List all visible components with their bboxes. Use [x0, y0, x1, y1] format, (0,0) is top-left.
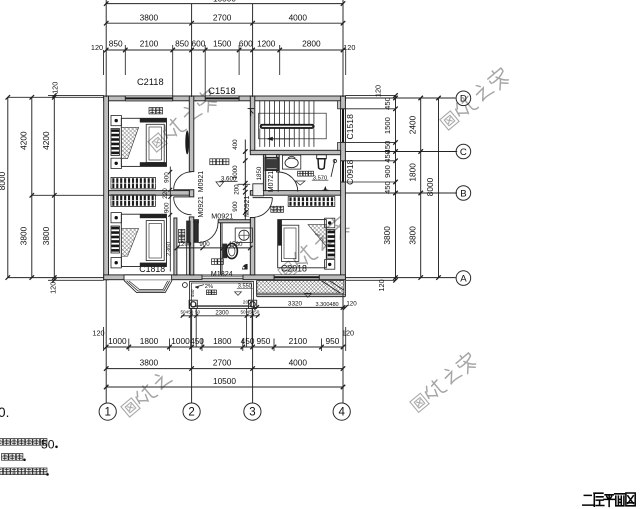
wall interior axis 2 stub between doors [189, 190, 194, 197]
wall exterior left (axis 1) [104, 96, 109, 280]
bed3 blanket hatch [308, 225, 326, 247]
room label bedroom1 (wo-shi) [149, 108, 155, 114]
bath1 cabinet dark [265, 157, 278, 170]
svg-text:1800: 1800 [213, 336, 232, 346]
porch slope 2% arrow [195, 285, 204, 288]
wall exterior bottom (axis A) [104, 275, 346, 280]
wall interior axis 2 lower [189, 217, 194, 275]
svg-text:M1824: M1824 [211, 269, 233, 278]
svg-text:3.300: 3.300 [316, 302, 330, 308]
bay window trapezoid [124, 280, 172, 293]
svg-text:2800: 2800 [302, 39, 321, 49]
dim chain left 4200/3800 inner [31, 97, 33, 277]
svg-text:1800: 1800 [407, 163, 417, 182]
bed3 top thick bar [278, 220, 282, 246]
porch column bottom-left [189, 300, 197, 308]
porch tiny canopy label [207, 290, 212, 295]
svg-text:900: 900 [232, 201, 239, 212]
bed2 head thick bar [140, 214, 167, 218]
dim chain right 8000 [438, 98, 440, 278]
svg-text:50: 50 [195, 309, 201, 314]
svg-text:450: 450 [190, 289, 195, 297]
svg-text:8000: 8000 [0, 171, 7, 190]
bed3 outline [278, 220, 327, 268]
stair down label (xia) [248, 109, 255, 117]
svg-text:450: 450 [241, 336, 255, 346]
svg-text:50.: 50. [0, 405, 9, 420]
axis bubble D [456, 91, 471, 106]
dim line bottom sub chain [106, 346, 343, 348]
bed1 headboard striped band [111, 129, 119, 156]
stair handrail [260, 124, 314, 128]
note line 2 [2, 454, 9, 461]
svg-text:A: A [460, 274, 467, 285]
room label leisure area (xiu-xian-qu) [210, 159, 216, 165]
svg-text:450: 450 [383, 97, 392, 110]
svg-text:C1518: C1518 [208, 86, 235, 96]
svg-text:120: 120 [51, 82, 60, 94]
stair treads lower flight [259, 129, 261, 147]
svg-text:50: 50 [254, 309, 260, 314]
svg-text:450: 450 [190, 336, 204, 346]
bed2 nightstand lower [111, 258, 121, 268]
bed2 blanket hatch [121, 229, 138, 257]
bottom extension lines from building [105, 280, 107, 403]
stair treads upper flight [259, 101, 261, 125]
door M0721 arc [278, 172, 298, 192]
bath2 washbasin circle [239, 230, 249, 240]
wall interior axis 3 lower (hall / bedroom3) [250, 218, 255, 275]
svg-text:2360: 2360 [165, 241, 172, 256]
wall bath2/study divider [220, 223, 222, 275]
porch bottom dim chain [181, 315, 259, 317]
bath2 floor drain [242, 264, 248, 270]
svg-text:2400: 2400 [407, 115, 417, 134]
door M0921 bedroom3 arc [253, 198, 273, 218]
wall interior axis B right (under bath) [250, 191, 340, 196]
svg-text:10500: 10500 [213, 0, 236, 3]
stair landing piers [338, 101, 341, 109]
window C1518 right wall (stair) [341, 109, 346, 143]
svg-text:1850: 1850 [256, 166, 263, 180]
wall exterior top (axis D) [104, 96, 346, 101]
svg-text:850: 850 [109, 39, 123, 49]
dim line bottom 3800/2700/4000 [106, 368, 343, 370]
svg-text:1500: 1500 [383, 117, 392, 134]
dim line top 3800/2700/4000 [106, 22, 343, 24]
axis bubble B [456, 186, 471, 201]
bed1 foot thick bar [140, 162, 167, 166]
svg-text:450: 450 [383, 181, 392, 194]
porch extension lines down [190, 308, 192, 347]
bed1 mattress inner [146, 124, 164, 162]
window C2018 bottom wall (bedroom3) [274, 275, 319, 280]
dim line study/bath2 [177, 247, 250, 249]
svg-text:1000: 1000 [171, 336, 190, 346]
porch column bottom-right [249, 300, 257, 308]
stair direction arrow [267, 138, 293, 140]
window C2118 top wall [125, 96, 172, 101]
bath2 washbasin counter [235, 228, 252, 242]
balcony diagonal brace [322, 281, 340, 293]
svg-text:120: 120 [342, 329, 354, 338]
bottom sub extension stubs [128, 339, 130, 352]
svg-text:3800: 3800 [18, 226, 28, 245]
door M0921 bedroom2 arc [174, 197, 192, 215]
svg-text:2: 2 [188, 407, 194, 419]
door M0921 bedroom1 arc [174, 172, 192, 190]
svg-text:4000: 4000 [289, 358, 308, 368]
wardrobe bedroom2 [111, 195, 155, 207]
svg-text:220: 220 [162, 188, 169, 199]
svg-text:600: 600 [191, 39, 205, 49]
room label bedroom3 [271, 206, 277, 212]
svg-text:120: 120 [346, 301, 357, 308]
svg-text:900: 900 [199, 241, 210, 248]
wall interior axis 2 upper (bedroom1 / hall) [189, 96, 194, 172]
watermark top-center [148, 133, 167, 152]
svg-text:3800: 3800 [140, 358, 159, 368]
svg-text:2300: 2300 [215, 311, 229, 317]
svg-text:2700: 2700 [213, 12, 232, 22]
svg-text:120: 120 [91, 43, 103, 52]
axis bubble 2 [183, 403, 200, 420]
svg-text:400: 400 [232, 139, 239, 150]
wall study top [194, 220, 199, 223]
svg-text:4000: 4000 [289, 12, 308, 22]
left extension lines [8, 96, 104, 98]
svg-text:900: 900 [383, 165, 392, 178]
dim chain right window positions [395, 95, 397, 280]
svg-text:C0918: C0918 [345, 159, 355, 185]
dark lens on wall bedroom1 [185, 130, 189, 154]
svg-text:2700: 2700 [213, 358, 232, 368]
dim line bottom 10500 [106, 386, 343, 388]
dim chain left wall face [53, 95, 55, 280]
svg-text:450: 450 [186, 309, 194, 314]
stair well outline [259, 113, 327, 139]
svg-text:950: 950 [325, 336, 339, 346]
svg-text:4200: 4200 [41, 131, 51, 150]
svg-text:C2018: C2018 [281, 263, 307, 273]
svg-text:3800: 3800 [41, 226, 51, 245]
room label study (tiny) [212, 259, 218, 265]
dim line top 10500 (clipped) [106, 3, 343, 5]
bed2 headboard striped band [111, 226, 119, 253]
svg-text:1000: 1000 [108, 336, 127, 346]
room label bathroom1 (wei-sheng-jian) [298, 171, 303, 176]
svg-text:3320: 3320 [288, 301, 303, 308]
bed1 blanket hatch [121, 127, 138, 158]
svg-text:M0921: M0921 [211, 211, 233, 220]
svg-text:8000: 8000 [425, 177, 435, 196]
svg-text:3: 3 [249, 407, 255, 419]
svg-text:450: 450 [383, 150, 392, 163]
wall closet left (bedroom2 side) [174, 218, 177, 275]
svg-text:850: 850 [175, 39, 189, 49]
wall closet right poche upper [187, 221, 191, 243]
svg-text:50: 50 [41, 437, 55, 451]
dim chain left 8000 [7, 97, 9, 277]
svg-text:1800: 1800 [140, 336, 159, 346]
svg-text:1200: 1200 [257, 39, 276, 49]
svg-text:120: 120 [377, 279, 386, 291]
svg-text:120: 120 [92, 329, 104, 338]
bath1 slope line [331, 159, 335, 177]
svg-text:M0921: M0921 [198, 171, 205, 193]
svg-text:480: 480 [329, 302, 338, 308]
wall interior axis 3 stub at niche [253, 184, 264, 196]
svg-text:120: 120 [49, 282, 58, 294]
axis bubble 1 [99, 403, 116, 420]
note line 1 (cut at left) with 50. [0, 439, 3, 446]
title er-ceng-ping-mian-tu (second floor plan) [583, 493, 635, 506]
bed2 nightstand upper [111, 213, 121, 223]
svg-text:2100: 2100 [289, 336, 308, 346]
svg-text:B: B [460, 188, 466, 199]
bed1 nightstand lower [111, 158, 121, 168]
dim chain at bedroom door wall [169, 167, 171, 272]
wall interior axis C (stair / bath) [250, 150, 340, 154]
balcony railing lines [257, 294, 346, 296]
watermark bottom near axis 1 [121, 398, 140, 417]
svg-text:3800: 3800 [407, 226, 417, 245]
balcony dim line [253, 306, 345, 308]
svg-text:200: 200 [233, 184, 240, 195]
bed1 outline [121, 118, 166, 166]
svg-text:4: 4 [338, 407, 345, 419]
porch slab outline [190, 281, 254, 308]
wall closet right thin lower [186, 243, 188, 275]
bay window opening in bottom wall [124, 275, 172, 280]
dim chain right axis spans [420, 98, 422, 278]
wall niche left (hall side) [263, 155, 265, 191]
svg-text:C2118: C2118 [137, 77, 164, 87]
svg-text:D: D [460, 94, 467, 105]
door study arc [198, 223, 218, 243]
watermark top-right [440, 111, 459, 130]
right extension lines to axis bubbles [345, 97, 455, 99]
bath1 toilet [317, 155, 327, 159]
svg-text:M0921: M0921 [244, 195, 251, 217]
svg-text:900: 900 [163, 202, 170, 213]
window C0918 right wall (bath) [341, 161, 346, 182]
porch steps lines [196, 304, 249, 306]
watermark center [278, 261, 297, 280]
svg-text:C: C [460, 147, 467, 158]
ext line niche [238, 183, 251, 185]
bed2 outline [121, 214, 166, 266]
axis bubble 4 [333, 403, 350, 420]
svg-text:3800: 3800 [140, 12, 159, 22]
svg-text:M0921: M0921 [198, 196, 205, 218]
balcony hatch deck [257, 281, 344, 294]
svg-text:120: 120 [373, 85, 382, 97]
bed1 head thick bar [140, 118, 167, 122]
svg-text:950: 950 [256, 336, 270, 346]
svg-text:50: 50 [240, 309, 246, 314]
svg-text:200: 200 [243, 300, 251, 306]
svg-text:900: 900 [163, 172, 170, 183]
door M1824 opening [202, 275, 243, 280]
bed3 mattress inner (pillow side) [281, 225, 298, 261]
balcony level triangle [304, 294, 311, 298]
axis bubble C [456, 144, 471, 159]
svg-text:1000: 1000 [232, 165, 239, 179]
bed3 nightstand upper [325, 218, 335, 228]
axis bubble 3 [244, 403, 261, 420]
wall bathroom1 left (door M0721 wall) [277, 155, 280, 172]
svg-text:1: 1 [104, 407, 110, 419]
bath1 washbasin oval [285, 158, 298, 168]
porch column top-left circle [183, 283, 188, 288]
bath1 black drain mark [324, 186, 327, 190]
svg-text:2100: 2100 [140, 39, 159, 49]
bath2 toilet [223, 244, 228, 259]
dim chain hallway right (rotated labels) [244, 140, 246, 221]
bed1 nightstand upper [111, 116, 121, 126]
wall interior axis B (bedroom1/bedroom2) [109, 191, 190, 196]
svg-text:C1518: C1518 [345, 114, 355, 140]
svg-text:600: 600 [239, 39, 253, 49]
bed3 nightstand lower [325, 260, 335, 270]
bath1 washbasin counter [282, 155, 300, 169]
svg-text:1500: 1500 [213, 39, 232, 49]
watermark right-lower [410, 393, 429, 412]
closet label (vertical tiny) [179, 229, 185, 235]
wardrobe bedroom3 [288, 197, 335, 207]
svg-text:2%: 2% [205, 284, 213, 290]
wall poche right of closet (axis2 side) [194, 221, 198, 243]
bed3 headboard striped band [327, 230, 335, 259]
svg-text:M0721: M0721 [268, 171, 275, 193]
svg-text:10500: 10500 [213, 376, 236, 386]
window C1518 top wall [205, 96, 239, 101]
bath1 floor drain circle [333, 159, 336, 162]
axis bubble A [456, 271, 471, 286]
wall exterior right (axis 4) [341, 96, 346, 280]
svg-text:1200: 1200 [178, 241, 192, 248]
svg-text:4200: 4200 [18, 131, 28, 150]
bed2 mattress inner [146, 221, 164, 261]
right window extension lines [345, 94, 395, 96]
note line 3 [0, 468, 3, 475]
svg-text:3800: 3800 [382, 226, 392, 245]
wall interior axis 3 stair side [250, 96, 255, 152]
bed2 foot thick bar [140, 263, 167, 267]
svg-text:120: 120 [343, 43, 355, 52]
wardrobe bedroom1 [111, 177, 155, 189]
dim line top sub chain [106, 49, 343, 51]
